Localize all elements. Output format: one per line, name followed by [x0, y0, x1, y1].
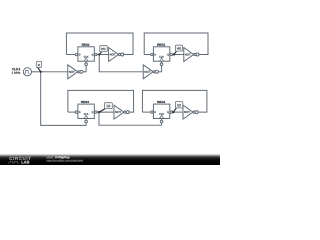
wire Q output REG4 [170, 111, 183, 113]
inverter NOT1 [68, 65, 83, 79]
inverter NOT4 [184, 48, 199, 62]
wire clock rail down to REG3 clk [41, 72, 86, 126]
wire feedback loop REG3 [68, 90, 134, 112]
pin D REG1 [75, 53, 77, 55]
pin label Q REG3 [92, 111, 94, 113]
pin D REG2 [151, 53, 153, 55]
wire NOT1 out to REG1 clk [83, 66, 86, 72]
flag in [36, 61, 41, 71]
pin Q REG2 [170, 53, 172, 55]
label NOT6 [184, 111, 190, 113]
flip-flop REG2 [153, 47, 169, 63]
clock source CLK1 [23, 68, 31, 76]
pin label CLK [159, 56, 164, 58]
flip-flop REG3 [78, 104, 94, 120]
pin D REG3 [75, 111, 77, 113]
flag Q1 [99, 103, 112, 112]
inverter NOT5 [114, 105, 129, 119]
pin label CLK [84, 113, 89, 115]
flip-flop REG4 [153, 104, 169, 120]
pin label Q REG4 [167, 111, 169, 113]
footer title text [47, 156, 55, 158]
junction at node HI2 [173, 53, 175, 55]
pin label CLK [84, 56, 89, 58]
pin CLK REG2 [160, 63, 163, 66]
pin CLK REG4 [160, 120, 163, 123]
flip-flop REG1 [78, 47, 94, 63]
wire Q output REG1 [94, 54, 108, 56]
label CLK1 [12, 68, 20, 70]
wire node Q1 down to REG4 clk rail [99, 112, 162, 125]
inverter NOT6 [183, 105, 198, 119]
pin label D REG1 [79, 54, 80, 56]
wire D input REG3 [68, 111, 78, 113]
wire Q output REG2 [170, 54, 184, 56]
wire D input REG1 [66, 54, 78, 56]
wire Q output REG3 [94, 111, 114, 113]
label REG4 [157, 101, 165, 103]
logo CircuitLab [8, 157, 31, 164]
pin label D REG3 [79, 111, 80, 113]
value 1 MHz [12, 72, 20, 74]
wire feedback loop REG2 [144, 33, 208, 55]
flag Q2 [173, 102, 182, 113]
pin Q REG1 [95, 53, 97, 55]
wire CLK1 to junction [32, 71, 41, 73]
label NOT2 [110, 54, 116, 56]
label NOT1 [69, 71, 75, 73]
label REG1 [82, 44, 90, 46]
footer url text [47, 160, 83, 163]
junction at CLK1 node [40, 71, 42, 73]
pin Q REG3 [95, 111, 97, 113]
wire D input REG2 [144, 54, 153, 56]
pin label Q REG1 [92, 54, 94, 56]
pin CLK REG1 [85, 63, 88, 66]
inverter NOT3 [143, 65, 158, 79]
flag HI1 [99, 46, 107, 55]
wire feedback loop REG4 [142, 90, 207, 112]
pin label CLK [159, 113, 164, 115]
footer bar [0, 154, 220, 165]
wire NOT3 out to REG2 clk [158, 66, 161, 72]
wire D input REG4 [142, 111, 153, 113]
pin Q REG4 [170, 111, 172, 113]
pin label D REG2 [155, 54, 156, 56]
junction at node Q1 [98, 111, 100, 113]
junction at node Q2 [172, 111, 174, 113]
label NOT4 [185, 54, 191, 56]
wire feedback loop REG1 [66, 33, 133, 55]
junction at node HI1 [98, 53, 100, 55]
pin label Q REG2 [167, 54, 169, 56]
pin label D REG4 [155, 111, 156, 113]
label NOT5 [115, 111, 121, 113]
label REG3 [81, 101, 89, 103]
pin CLK REG3 [85, 120, 88, 123]
flag HI2 [174, 45, 183, 54]
label REG2 [157, 44, 165, 46]
label NOT3 [145, 71, 151, 73]
wire node HI1 down to NOT3 input [99, 55, 143, 72]
pin D REG4 [151, 111, 153, 113]
inverter NOT2 [109, 48, 124, 62]
wire junction to NOT1 input [41, 71, 68, 73]
